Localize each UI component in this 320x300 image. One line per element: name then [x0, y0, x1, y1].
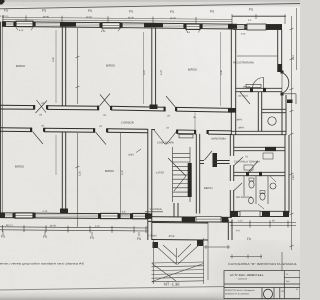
svg-text:80 90: 80 90 [86, 16, 93, 19]
registratura window [247, 24, 266, 30]
title block zone tint [0, 0, 1, 1]
top exterior wall left half [2, 22, 120, 28]
entrance door arc [281, 71, 289, 96]
svg-text:F5: F5 [4, 9, 8, 13]
svg-text:-0.52: -0.52 [168, 234, 175, 238]
stamp circle title block [264, 289, 273, 299]
svg-text:BIROU: BIROU [15, 165, 24, 169]
svg-text:80 90: 80 90 [170, 17, 177, 20]
svg-text:4,10: 4,10 [95, 225, 100, 228]
corridor end pier [228, 108, 236, 113]
UNF1 label [128, 149, 141, 157]
sink fixture [270, 183, 276, 189]
svg-text:80 90: 80 90 [50, 224, 57, 227]
bottom scan shadow [0, 291, 300, 300]
bottom wall piers [0, 213, 152, 219]
svg-text:UNF1: UNF1 [128, 154, 135, 157]
svg-text:F5: F5 [90, 236, 94, 240]
svg-text:5,20: 5,20 [79, 171, 82, 176]
registratura door swing [253, 77, 264, 88]
window W4 bottom [15, 213, 33, 218]
door swings corridor top [36, 94, 177, 114]
svg-text:F5: F5 [210, 10, 214, 14]
interior dim vertical x77 lower [76, 133, 80, 227]
sheet frame bottom line [0, 287, 225, 291]
svg-text:5,47: 5,47 [121, 170, 124, 175]
wc partition [255, 176, 257, 204]
interior dim vertical at x77 upper [76, 28, 80, 104]
title block firm name [230, 274, 264, 280]
svg-text:F5: F5 [42, 9, 46, 13]
boiler room bottom wall [234, 172, 285, 176]
svg-text:F5: F5 [1, 235, 5, 239]
garderoba-birou divider [200, 151, 232, 164]
wall pier top at P1 [60, 22, 76, 26]
sill tick arrows [16, 28, 200, 33]
U3 labels corridor [39, 102, 171, 128]
window W5 bottom [101, 213, 119, 218]
svg-text:URF2: URF2 [236, 119, 243, 122]
boiler equipment [244, 153, 273, 170]
title block right cell text [286, 273, 299, 291]
registratura dim line [237, 55, 277, 57]
top exterior wall right half [120, 23, 233, 29]
top margin strip [0, 0, 300, 7]
pre-table dim marks [230, 252, 282, 271]
svg-text:5,47: 5,47 [160, 70, 163, 75]
terrace walls below stair wing [152, 220, 232, 241]
title block names row [225, 289, 285, 295]
wall pier top left end [2, 22, 6, 27]
svg-text:80 90: 80 90 [43, 16, 50, 19]
porch railing diagonals [154, 238, 204, 284]
svg-text:3,40: 3,40 [292, 55, 295, 60]
svg-text:BIROU: BIROU [204, 187, 213, 190]
title block right cell divider [284, 277, 300, 279]
svg-text:CATEGORIA "B" IMPORTANTA G: CATEGORIA "B" IMPORTANTA GRADUL [228, 262, 297, 266]
svg-text:URF2: URF2 [238, 127, 245, 130]
svg-text:CORIDOR: CORIDOR [121, 122, 134, 125]
partition P1 [62, 27, 65, 106]
partition P3 registratura left wall [231, 29, 235, 135]
tiny dim numbers bottom [6, 210, 126, 228]
dim marks right of fan [204, 245, 230, 249]
lower-right bottom wall [230, 211, 289, 217]
exterior stair treads [152, 262, 205, 282]
window edge jambs top band [13, 22, 246, 30]
closet dark bar [213, 153, 218, 167]
svg-text:80 2,1: 80 2,1 [6, 224, 13, 227]
svg-text:F5: F5 [170, 10, 174, 14]
svg-text:PROIECTAT AA A.V. Georgescu: PROIECTAT AA A.V. Georgescu [225, 289, 255, 292]
svg-text:NT -1.36: NT -1.36 [164, 282, 180, 287]
svg-text:4,10: 4,10 [43, 210, 48, 213]
svg-text:F5: F5 [43, 235, 47, 239]
registratura top wall [233, 25, 282, 30]
toilet fixture 2 [260, 193, 265, 200]
stair core wall [188, 163, 192, 197]
svg-text:F5: F5 [129, 10, 133, 14]
bottom-left exterior wall [0, 213, 148, 219]
svg-text:ETRINA: ETRINA [148, 235, 157, 238]
partition P5 stair wing left wall [148, 129, 152, 240]
partition P2 [150, 27, 158, 109]
svg-text:CASA SCARII: CASA SCARII [157, 142, 174, 145]
lower-right block right wall [285, 135, 289, 213]
svg-text:1,80 2,1: 1,80 2,1 [0, 15, 9, 18]
svg-text:2,15: 2,15 [238, 220, 243, 223]
F5 labels top row [4, 7, 253, 14]
small circle stamp [268, 117, 276, 125]
right vertical dim chain [290, 8, 297, 250]
svg-text:BIROU: BIROU [106, 64, 115, 68]
radiator box stair hall [179, 135, 193, 138]
bottom-right dim chain [230, 221, 296, 228]
svg-text:GARD/ROBA: GARD/ROBA [211, 138, 226, 141]
top dimension chain line A [2, 17, 232, 19]
svg-text:S.C "D" AGAT – PROIECT S.R.L.: S.C "D" AGAT – PROIECT S.R.L. [230, 274, 264, 277]
window W3 top [186, 24, 200, 29]
svg-text:5,20: 5,20 [52, 57, 55, 62]
wall pier top at P3 [228, 24, 237, 29]
garderoba partition vertical [196, 134, 199, 214]
svg-text:7,80: 7,80 [292, 175, 295, 180]
dim ticks top [3, 14, 285, 24]
left exterior wall [1, 22, 3, 215]
toilet fixture [249, 181, 254, 188]
corner mark top-left [0, 0, 5, 5]
door swings corridor bottom [33, 132, 107, 145]
svg-text:PL.: PL. [286, 273, 289, 276]
wc door swings [246, 170, 276, 209]
F labels bottom [1, 235, 141, 242]
window W1 top [16, 21, 33, 26]
sideways dim text lower rooms [79, 170, 125, 176]
sheet frame top line [0, 4, 300, 9]
svg-text:BIROIK: BIROIK [243, 85, 251, 88]
svg-text:80 90: 80 90 [128, 16, 135, 19]
tiny dim numbers top [0, 15, 252, 22]
svg-text:BIROU: BIROU [16, 64, 25, 68]
sideways dim text room2 [52, 57, 223, 75]
entrance porch [282, 94, 296, 104]
boiler door swing [249, 161, 259, 172]
F label ticks bottom [3, 231, 139, 236]
tiny numbers right dims [236, 220, 275, 233]
title block table [224, 271, 300, 299]
boiler room top wall [234, 147, 285, 151]
window W2 top [102, 23, 120, 28]
window sill marks 8,10 below windows [19, 29, 246, 36]
svg-text:F6: F6 [137, 237, 141, 241]
registratura bottom wall [236, 88, 282, 92]
window W6 bottom [133, 214, 148, 219]
top dimension chain right [232, 15, 286, 17]
door diag vestibule [240, 92, 250, 104]
stair wing top wall [152, 130, 232, 135]
svg-text:REGISTRATURA: REGISTRATURA [233, 62, 254, 65]
svg-text:F9: F9 [247, 237, 251, 241]
corridor bottom wall [0, 128, 148, 133]
vertical dim at x208 [207, 222, 209, 280]
vestibul partition [145, 203, 178, 217]
svg-text:BIROU: BIROU [188, 68, 197, 72]
top dimension chain line B [2, 20, 232, 22]
partition P4 [60, 132, 68, 214]
URF2 labels [236, 119, 245, 130]
svg-text:Rev: Rev [286, 280, 290, 283]
bottom dim chain left [0, 225, 148, 233]
lower-right block left wall [230, 135, 243, 217]
svg-text:F5: F5 [249, 7, 253, 11]
staircase [168, 147, 190, 202]
svg-text:- proiectare -: - proiectare - [237, 278, 249, 281]
corridor top wall left [0, 105, 231, 112]
corridor dim tick right [193, 113, 197, 130]
svg-text:VESTIBUL: VESTIBUL [150, 208, 163, 211]
svg-text:DESENAT P...B. (arhitect): DESENAT P...B. (arhitect) [225, 293, 249, 296]
exterior stair porch columns [153, 240, 204, 248]
svg-text:± 0.00: ± 0.00 [156, 171, 164, 175]
right exterior wall mid [282, 95, 286, 135]
svg-text:BIROU: BIROU [105, 169, 114, 173]
vestibule walls [231, 92, 286, 135]
right exterior wall upper [278, 29, 282, 72]
radiator registratura [246, 84, 261, 87]
registratura right pier [266, 24, 282, 30]
svg-text:F5: F5 [88, 9, 92, 13]
svg-text:entru verea grupurilor sanitar: entru verea grupurilor sanitare vezi pla… [0, 263, 85, 266]
U4 double door swing [154, 127, 178, 145]
sideways numbers right chain [292, 55, 295, 180]
wall pier top at P2 [144, 23, 163, 27]
room interior dim verticals [56, 30, 221, 175]
stair wing bottom wall [148, 216, 232, 222]
interior dim vertical x120 lower [120, 133, 122, 213]
